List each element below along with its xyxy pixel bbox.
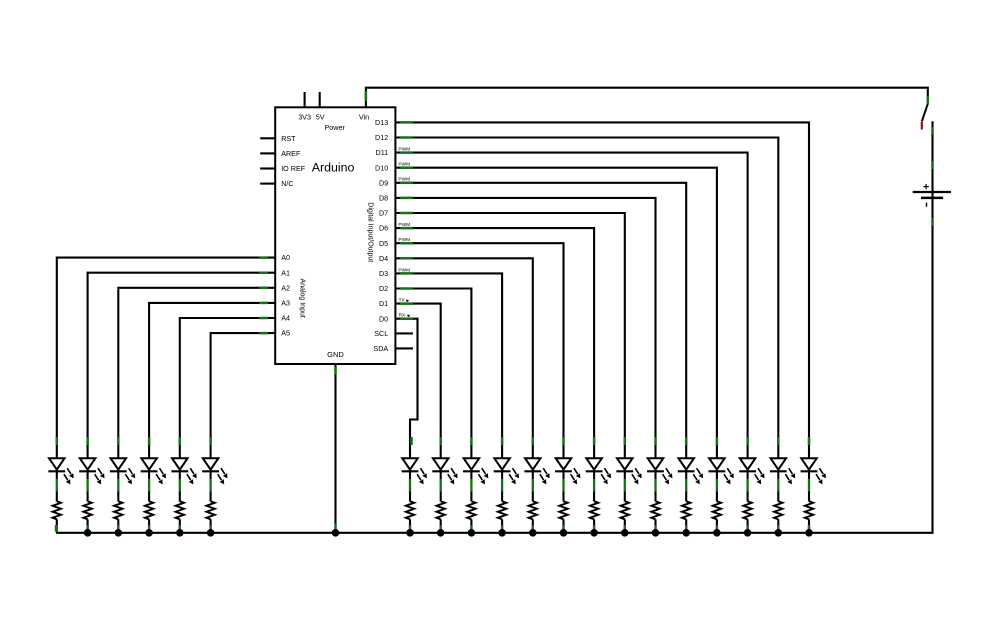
LED LED14 (D13) [801, 445, 826, 501]
svg-text:IO REF: IO REF [281, 164, 306, 173]
svg-text:D7: D7 [379, 209, 388, 218]
svg-text:D9: D9 [379, 178, 388, 187]
wire D12 to LED [395, 138, 778, 446]
resistor R4 (D3) [498, 501, 506, 533]
wire resistor to bus (D4) [532, 525, 535, 532]
wire D1 to LED [395, 304, 440, 445]
LED LED8 (D7) [616, 445, 641, 501]
wire resistor to bus (D9) [685, 525, 688, 532]
svg-text:3V3: 3V3 [298, 112, 311, 121]
wire D0 to LED7 [395, 319, 417, 445]
junction at x=87.6 [84, 529, 92, 537]
svg-text:A1: A1 [281, 268, 290, 277]
wire D4 to LED [395, 258, 532, 445]
svg-text:D5: D5 [379, 239, 388, 248]
resistor R2 (D1) [437, 501, 445, 533]
wire A1 to LED2 [88, 273, 276, 445]
resistor R18 (A3) [145, 501, 153, 533]
svg-text:D4: D4 [379, 254, 388, 263]
battery BT1 positive plate [913, 191, 951, 193]
pin IO REF stub [260, 167, 275, 169]
wire D2 to LED [395, 289, 471, 446]
svg-text:A5: A5 [281, 329, 290, 338]
LED LED3 (D2) [463, 445, 488, 501]
wire A5 to LED6 [211, 333, 276, 445]
pin SDA stub [395, 347, 413, 349]
junction at D2 column [468, 529, 476, 537]
bus corner green left [55, 525, 58, 531]
LED LED10 (D9) [678, 445, 703, 501]
svg-text:5V: 5V [316, 112, 325, 121]
junction at D1 column [437, 529, 445, 537]
LED LED16 (A1) [79, 445, 104, 501]
resistor R12 (D11) [743, 501, 751, 533]
wire resistor to bus (D13) [808, 525, 811, 532]
resistor R5 (D4) [529, 501, 537, 533]
resistor R10 (D9) [682, 501, 690, 533]
junction at D8 column [652, 529, 660, 537]
wire A2 to LED3 [118, 288, 275, 445]
resistor R7 (D6) [590, 501, 598, 533]
wire resistor to bus (D11) [746, 525, 749, 532]
wire D8 to LED [395, 198, 655, 445]
resistor R13 (D12) [774, 501, 782, 533]
junction at x=118.3 [115, 529, 123, 537]
wire resistor to bus (D1) [439, 525, 442, 532]
junction at D3 column [498, 529, 506, 537]
wire resistor to bus (D7) [624, 525, 627, 532]
LED LED19 (A4) [171, 445, 196, 501]
svg-text:D13: D13 [375, 118, 388, 127]
LED LED4 (D3) [494, 445, 519, 501]
svg-text:Analog Input: Analog Input [298, 279, 305, 318]
wire D5 to LED [395, 243, 563, 445]
resistor R11 (D10) [713, 501, 721, 533]
wire A0 to LED1 [57, 258, 275, 445]
junction at D6 column [590, 529, 598, 537]
resistor R8 (D7) [621, 501, 629, 533]
resistor R19 (A4) [176, 501, 184, 533]
wire resistor to bus (D10) [716, 525, 719, 532]
wire resistor to bus (A1) [86, 525, 89, 532]
wire Vin to switch (top rail) [366, 88, 928, 108]
svg-text:A2: A2 [281, 283, 290, 292]
pin D0 RX marker [399, 313, 410, 319]
wire D10 to LED [395, 168, 717, 445]
resistor R14 (D13) [805, 501, 813, 533]
svg-text:A4: A4 [281, 314, 290, 323]
junction at D12 column [775, 529, 783, 537]
svg-text:RST: RST [281, 134, 296, 143]
svg-text:GND: GND [327, 350, 344, 359]
junction at x=210.6 [207, 529, 215, 537]
pin D1 TX marker [399, 297, 410, 303]
resistor R17 (A2) [114, 501, 122, 533]
junction GND [332, 529, 340, 537]
wire D7 to LED [395, 213, 624, 445]
resistor R16 (A1) [83, 501, 91, 533]
LED LED6 (D5) [555, 445, 580, 501]
svg-text:SCL: SCL [374, 329, 388, 338]
wire D6 to LED [395, 228, 594, 445]
wire resistor to bus (D6) [593, 525, 596, 532]
wire battery to bus [931, 198, 933, 533]
ground bus wire [56, 532, 933, 534]
battery BT1 minus sign [926, 203, 928, 207]
junction at D4 column [529, 529, 537, 537]
LED LED18 (A3) [141, 445, 166, 501]
junction at D7 column [621, 529, 629, 537]
svg-text:Vin: Vin [359, 112, 369, 121]
wire resistor to bus (A5) [209, 525, 212, 532]
wire D9 to LED [395, 183, 686, 445]
LED LED15 (A0) [48, 445, 73, 501]
LED LED17 (A2) [110, 445, 135, 501]
switch S1 open terminal (unconnected, red) [921, 122, 923, 130]
svg-text:D10: D10 [375, 163, 388, 172]
resistor R9 (D8) [651, 501, 659, 533]
battery BT1 plus sign [923, 184, 928, 189]
wire resistor to bus (D12) [777, 525, 780, 532]
resistor R20 (A5) [206, 501, 214, 533]
wire switch to battery [931, 121, 933, 198]
switch S1 blade [922, 104, 928, 122]
wire resistor to bus (D3) [501, 525, 504, 532]
wire D3 to LED [395, 273, 502, 445]
svg-text:Power: Power [325, 123, 346, 132]
svg-text:D12: D12 [375, 133, 388, 142]
LED LED12 (D11) [739, 445, 764, 501]
wire D13 to LED [395, 122, 809, 445]
pin N/C stub [260, 183, 275, 185]
junction at D9 column [682, 529, 690, 537]
junction at D5 column [560, 529, 568, 537]
junction at D13 column [805, 529, 813, 537]
LED LED11 (D10) [709, 445, 734, 501]
junction at D10 column [713, 529, 721, 537]
resistor R3 (D2) [467, 501, 475, 533]
resistor R15 (A0) [53, 501, 61, 533]
pin 5V stub [319, 92, 321, 107]
LED LED20 (A5) [202, 445, 227, 501]
wire resistor to bus (A3) [148, 525, 151, 532]
wire A3 to LED4 [149, 303, 275, 445]
wire D11 to LED [395, 153, 747, 445]
svg-text:D1: D1 [379, 299, 388, 308]
junction at x=179.8 [176, 529, 184, 537]
svg-text:SDA: SDA [373, 344, 388, 353]
wire resistor to bus (A2) [117, 525, 120, 532]
junction at D0 column [406, 529, 414, 537]
Arduino U1 body [275, 107, 395, 364]
LED LED9 (D8) [647, 445, 672, 501]
svg-text:AREF: AREF [281, 149, 301, 158]
svg-text:D8: D8 [379, 194, 388, 203]
LED LED1 (D0) [402, 445, 427, 501]
svg-text:A0: A0 [281, 253, 290, 262]
svg-text:D2: D2 [379, 284, 388, 293]
wire resistor to bus (A4) [179, 525, 182, 532]
wire resistor to bus (D0) [409, 525, 412, 532]
svg-text:D11: D11 [376, 148, 389, 157]
wire resistor to bus (D2) [470, 525, 473, 532]
junction at x=149.1 [145, 529, 153, 537]
svg-text:D6: D6 [379, 224, 388, 233]
wire resistor to bus (A0) [56, 525, 59, 532]
wire A4 to LED5 [180, 318, 275, 445]
battery BT1 negative plate [921, 197, 943, 200]
LED LED2 (D1) [432, 445, 457, 501]
wire resistor to bus (D8) [654, 525, 657, 532]
wire resistor to bus (D5) [562, 525, 565, 532]
svg-text:N/C: N/C [281, 179, 293, 188]
svg-text:D3: D3 [379, 269, 388, 278]
LED LED13 (D12) [770, 445, 795, 501]
junction at D11 column [744, 529, 752, 537]
pin 3V3 stub [304, 92, 306, 107]
LED LED5 (D4) [524, 445, 549, 501]
pin SCL stub [395, 332, 413, 334]
pin RST stub [260, 137, 275, 139]
pin AREF stub [260, 152, 275, 154]
resistor R1 (D0) [406, 501, 414, 533]
svg-text:Digital Input/Output: Digital Input/Output [366, 202, 373, 262]
resistor R6 (D5) [559, 501, 567, 533]
svg-text:A3: A3 [281, 299, 290, 308]
LED LED7 (D6) [586, 445, 611, 501]
wire GND to bus [334, 364, 336, 533]
svg-text:D0: D0 [379, 314, 388, 323]
svg-text:Arduino: Arduino [312, 160, 355, 174]
